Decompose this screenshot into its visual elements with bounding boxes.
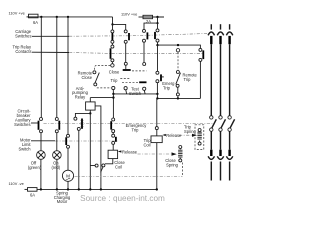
close coil	[108, 144, 125, 169]
svg-text:Source : queen-int.com: Source : queen-int.com	[80, 194, 165, 203]
wire V6 trip branch	[143, 42, 146, 66]
svg-text:Release: Release	[122, 149, 138, 154]
wire branch to V5	[113, 24, 126, 30]
wire relay bottom junction	[89, 110, 91, 113]
test switch terminal T1	[112, 86, 115, 89]
wire V3 to motor	[67, 148, 69, 170]
carriage switch C3 branch from right rail	[143, 17, 159, 42]
wire carriage leader	[32, 35, 69, 37]
trip relay contact right (on x=200.5)	[199, 48, 203, 61]
svg-text:Spring: Spring	[166, 162, 179, 167]
test switch terminal T3	[143, 87, 146, 90]
anti-pumping relay coil	[72, 86, 95, 110]
trip pushbutton bar	[139, 81, 146, 83]
emergency trip button	[156, 45, 175, 90]
motor M spring charging motor	[54, 170, 74, 204]
svg-text:Switch: Switch	[129, 91, 142, 96]
wire aux mech dash-dot line	[44, 123, 214, 125]
wire emerg trip to bus A	[156, 83, 158, 94]
remote trip switch	[176, 71, 198, 88]
test switch blade T2	[125, 90, 128, 94]
node V4 branch	[111, 23, 113, 25]
svg-text:Switches: Switches	[15, 34, 31, 39]
svg-text:Switch: Switch	[18, 147, 31, 152]
close pushbutton dash	[132, 70, 146, 72]
test switch blade T1	[112, 90, 114, 94]
wire remote trip to bus B	[177, 87, 179, 93]
bottom rail nodes	[40, 188, 42, 190]
svg-text:Trip: Trip	[163, 86, 171, 91]
wire V4 down to test switch	[111, 62, 113, 64]
wire trip relay leader	[32, 51, 69, 53]
trip spring	[184, 125, 202, 146]
svg-text:110V +ve: 110V +ve	[121, 12, 137, 17]
trip coil	[143, 98, 162, 147]
close spring dash link down	[182, 163, 184, 177]
wire vertical V3 upper	[67, 17, 69, 134]
svg-text:110V -ve: 110V -ve	[9, 181, 24, 186]
svg-text:Contacts: Contacts	[15, 49, 31, 54]
svg-text:Switches: Switches	[14, 122, 30, 127]
breaker pole 3	[226, 24, 234, 180]
fuse F2 2A	[139, 15, 165, 24]
svg-text:Trip: Trip	[132, 127, 140, 132]
wire lamp2 to bottom rail	[56, 159, 58, 189]
lamp OFF (green)	[28, 151, 45, 170]
carriage switch C4 on V7	[155, 23, 159, 42]
remote close to test switch dash	[97, 87, 111, 89]
svg-text:Motor: Motor	[57, 199, 68, 204]
close spring	[165, 146, 182, 168]
svg-text:Trip: Trip	[184, 77, 192, 82]
mechanism dash-dot line motor to close spring	[75, 176, 183, 178]
trip bus B	[157, 94, 200, 99]
wire top-left rail	[38, 16, 113, 18]
wire aux leader	[31, 122, 39, 124]
node terminal to remote close dash	[111, 64, 114, 67]
wire V1 to lamp	[40, 133, 42, 151]
lamp ON (red)	[51, 151, 61, 170]
motor limit switch contact on V3	[66, 134, 69, 148]
svg-text:Relay: Relay	[75, 94, 86, 99]
test switch terminal T2	[124, 87, 127, 90]
svg-text:Close: Close	[82, 75, 93, 80]
wire V5 through close button	[124, 43, 127, 69]
fuse F3 6A	[25, 188, 38, 198]
release arrow (trip)	[162, 133, 197, 138]
trip bus A	[113, 93, 157, 95]
test switch blade T3	[143, 90, 146, 94]
breaker pole 1	[208, 24, 216, 180]
remote close dash link	[95, 65, 111, 70]
wire close coil bottom to knife	[105, 159, 113, 164]
wire trip relay mech dash-dot line	[69, 52, 202, 55]
svg-text:(green): (green)	[28, 165, 42, 170]
anti-pump contact	[74, 117, 84, 130]
remote trip dash link	[176, 49, 179, 71]
wire V10 relay bottom to knife	[89, 113, 91, 189]
breaker pole 2	[217, 24, 225, 180]
svg-text:M: M	[66, 174, 70, 179]
release dash-dot to close spring	[138, 153, 171, 155]
svg-text:Coil: Coil	[143, 142, 150, 147]
close coil knife switch	[95, 164, 105, 172]
bottom rail	[37, 188, 157, 190]
wire vertical V1 upper	[40, 17, 42, 118]
aux switch S2 on V2 (closed)	[55, 118, 59, 133]
trip relay contact on V4	[111, 43, 114, 62]
release arrow (close)	[118, 149, 138, 154]
wire vertical V2 upper	[56, 17, 58, 118]
wire motor limit leader	[31, 140, 55, 142]
wire lamp1 to bottom rail	[40, 159, 42, 189]
svg-text:110V +ve: 110V +ve	[9, 11, 25, 16]
carriage switch C1 on V4	[111, 24, 114, 43]
wire V2 to lamp	[56, 133, 58, 151]
svg-text:Close: Close	[109, 70, 120, 75]
trip spring dashed housing	[195, 125, 204, 150]
wire carriage mech dash-dot line	[69, 34, 208, 37]
node on right rail	[156, 16, 158, 18]
wire top trip feeder y=45	[158, 45, 201, 48]
carriage switch C2 on V5	[124, 30, 129, 43]
svg-text:6A: 6A	[33, 20, 38, 25]
wire motor limit mech dash-dot line	[55, 140, 118, 142]
node remote trip tap	[177, 44, 179, 46]
wire V4 node to anti-pump relay line C	[112, 94, 114, 118]
node C4 bottom junction	[157, 42, 159, 45]
wire motor to bottom rail	[67, 181, 69, 189]
close pushbutton bar	[123, 69, 131, 71]
svg-text:6A: 6A	[30, 193, 35, 198]
wire branch to anti-pump contact	[75, 113, 90, 117]
wire V4 top feed from left rail	[112, 17, 114, 25]
wire trip coil bottom to rail	[156, 143, 158, 190]
svg-text:(red): (red)	[51, 165, 60, 170]
contact above close coil	[112, 133, 116, 145]
aux switch S1 on V1	[39, 118, 43, 133]
wire anti-pump contact to bottom rail	[78, 130, 80, 189]
trip pushbutton dash	[120, 78, 130, 80]
node rail dots	[40, 16, 42, 18]
svg-text:Trip: Trip	[111, 78, 119, 83]
fuse F1 6A	[27, 14, 39, 25]
wire right contact down to trip bus B	[199, 61, 201, 98]
wire relay right side to V12	[95, 106, 101, 189]
remote close switch	[78, 70, 100, 86]
aux switch on V4	[111, 118, 115, 133]
svg-text:Coil: Coil	[115, 164, 122, 169]
